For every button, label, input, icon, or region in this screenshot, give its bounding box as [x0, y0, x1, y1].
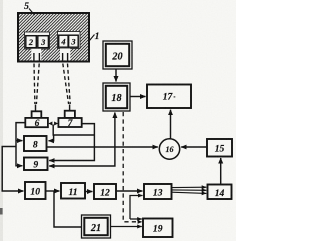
label 5: [24, 1, 34, 15]
scan artifact left edge: [0, 208, 3, 215]
box 18 (double border): [103, 83, 130, 111]
wire 6 output bus: [16, 123, 25, 166]
wire 16 to 17: [170, 110, 172, 139]
box 10: [25, 182, 46, 199]
wire fork into 13 lower input: [130, 196, 143, 220]
wire 21 to 19: [111, 226, 142, 228]
wire 15 to 16: [181, 146, 207, 148]
wire jog into 8 right side: [49, 135, 54, 141]
wire 18 to 17: [130, 96, 146, 98]
box 11: [61, 183, 85, 199]
wire 12 to 13: [116, 190, 142, 192]
wire fork into 19 upper input: [130, 218, 142, 220]
wire bus into 8 left: [16, 140, 22, 142]
wire 11 to 12: [85, 191, 92, 193]
wire 20 to 18: [115, 69, 117, 82]
housing block 1 (hatched): [18, 13, 89, 62]
inset window left: [25, 32, 50, 49]
box 2: [26, 36, 37, 48]
box 20 (double border): [103, 41, 132, 69]
dashed gap right pair: [63, 64, 70, 105]
transducer 7: [58, 105, 81, 130]
summing circle 16: [159, 139, 179, 159]
box 12: [94, 184, 116, 199]
wire 13 to 14 triple lines: [172, 187, 207, 193]
wire junction bus between 6 and 7: [53, 125, 94, 136]
wire branch down to 21: [54, 191, 81, 227]
box 19: [143, 219, 173, 238]
box 4: [59, 35, 68, 47]
connector between 4 and 3: [68, 40, 70, 43]
box 15: [207, 139, 232, 157]
box 8: [24, 136, 47, 151]
label 1: [90, 31, 100, 42]
wire bus to 10: [2, 147, 23, 192]
dashed wire 18 to 19: [123, 112, 142, 224]
box 14: [208, 185, 232, 200]
wire arrow into 6: [48, 122, 52, 126]
transducer 6: [25, 105, 48, 130]
box 13: [144, 184, 172, 199]
box 9: [24, 158, 48, 171]
box 3 (right pair): [69, 35, 79, 47]
wire branch up into 18: [114, 113, 116, 148]
wire 10 to 11: [46, 190, 60, 192]
paper grain: [0, 0, 236, 241]
wire branch down into 9 right side: [49, 147, 115, 166]
stem right: [60, 49, 70, 61]
stem left: [31, 49, 41, 61]
box 21 (double border): [82, 215, 111, 238]
dashed gap left pair: [34, 64, 39, 105]
box 3 (left pair): [38, 36, 49, 48]
inset window right: [58, 32, 81, 49]
wire 8 to 16 (long): [47, 146, 158, 148]
connector between 2 and 3: [36, 41, 38, 44]
box 17: [147, 85, 191, 109]
wire 7 to 9: [49, 124, 94, 161]
wire 14 to 15: [220, 158, 222, 185]
wire arrow into 7: [54, 122, 58, 126]
